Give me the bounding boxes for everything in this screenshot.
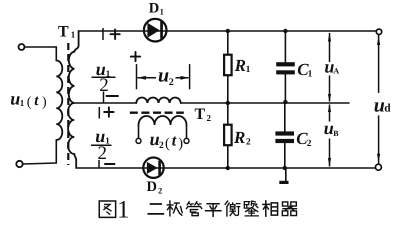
svg-text:2: 2 — [307, 139, 312, 149]
svg-text:u: u — [10, 89, 20, 109]
svg-text:2: 2 — [246, 138, 251, 148]
svg-text:2: 2 — [98, 143, 108, 164]
svg-text:1: 1 — [246, 65, 251, 75]
svg-text:2: 2 — [99, 75, 109, 96]
svg-text:(: ( — [27, 95, 32, 110]
svg-text:2: 2 — [158, 185, 162, 195]
svg-text:t: t — [172, 132, 177, 149]
svg-text:2: 2 — [207, 113, 212, 123]
svg-text:1: 1 — [117, 196, 130, 223]
svg-text:1: 1 — [20, 98, 25, 108]
svg-text:T: T — [195, 106, 206, 123]
svg-text:D: D — [149, 1, 159, 17]
svg-text:(: ( — [165, 136, 170, 152]
svg-text:1: 1 — [160, 6, 164, 16]
svg-text:1: 1 — [308, 70, 313, 80]
svg-text:t: t — [34, 93, 39, 109]
svg-text:R: R — [233, 128, 245, 147]
svg-text:D: D — [147, 179, 157, 195]
svg-text:A: A — [333, 67, 339, 76]
svg-text:1: 1 — [71, 30, 76, 40]
svg-text:): ) — [178, 136, 183, 152]
svg-text:B: B — [333, 129, 339, 138]
svg-text:d: d — [384, 103, 391, 115]
svg-text:T: T — [58, 23, 69, 40]
svg-text:R: R — [234, 56, 246, 75]
svg-text:u: u — [158, 64, 169, 86]
svg-text:2: 2 — [169, 77, 174, 88]
svg-text:2: 2 — [159, 141, 164, 151]
svg-text:): ) — [42, 95, 47, 110]
